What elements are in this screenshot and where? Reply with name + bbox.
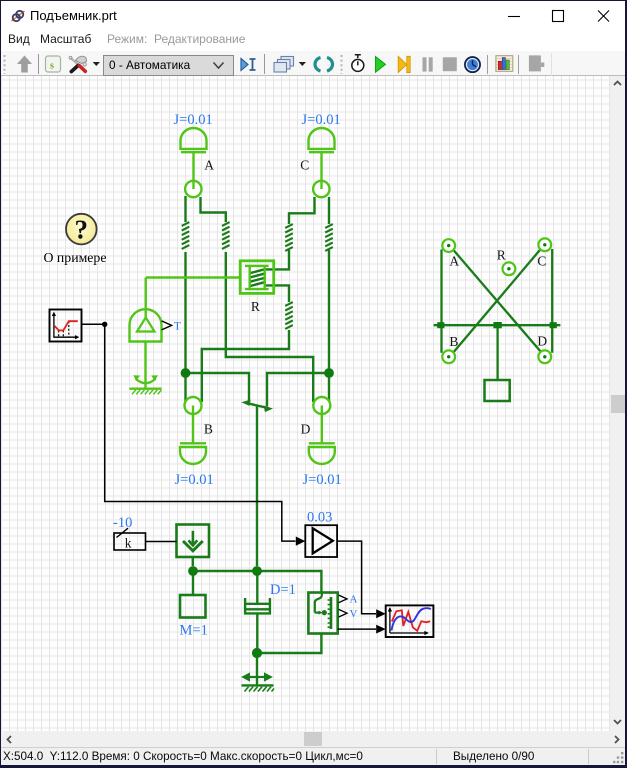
svg-text:0 - Автоматика: 0 - Автоматика [109, 58, 191, 72]
svg-text:s: s [50, 61, 54, 72]
